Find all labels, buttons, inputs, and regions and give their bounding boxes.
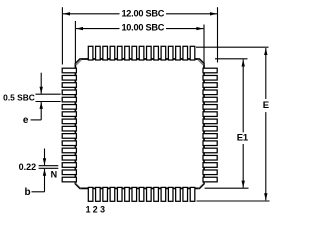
svg-text:E: E (263, 100, 269, 111)
pin-1 corner chamfer hatch top-left (75, 59, 81, 65)
svg-text:2: 2 (93, 204, 98, 214)
E dimension line with arrows (264, 48, 267, 200)
svg-text:N: N (51, 170, 58, 180)
svg-text:1: 1 (86, 204, 91, 214)
top lead row (15 leads) (88, 46, 195, 60)
package body outline (75, 59, 204, 188)
10.00 SBC dimension line with arrows (76, 27, 203, 30)
E dimension extension line bottom (197, 200, 270, 202)
svg-text:b: b (24, 187, 30, 198)
bottom lead row (15 leads), lead 1..3 at left (88, 187, 195, 201)
12.00 SBC dimension extension line right (217, 7, 219, 62)
E1 dimension line with arrows (242, 60, 245, 188)
12.00 SBC dimension line with arrows (63, 12, 217, 15)
0.22 lead width arrow above (43, 149, 46, 166)
right lead column (16 leads) (203, 68, 217, 182)
lead pitch measure line lower (36, 101, 61, 103)
0.5 SBC pitch arrow below with leader to e (31, 102, 43, 120)
svg-text:10.00 SBC: 10.00 SBC (121, 23, 164, 33)
corner chamfer hatch bottom-left (75, 183, 81, 189)
lead width measure line lower (39, 167, 59, 169)
10.00 SBC dimension extension line left (74, 21, 76, 63)
0.22 lead width arrow below with leader to b (32, 169, 47, 192)
svg-text:0.22: 0.22 (19, 162, 37, 172)
lead pitch measure line upper (36, 93, 61, 95)
12.00 SBC dimension extension line left (61, 7, 63, 64)
left lead column (16 leads) (62, 68, 76, 182)
corner chamfer hatch bottom-right (198, 183, 204, 189)
svg-text:12.00 SBC: 12.00 SBC (121, 8, 164, 18)
10.00 SBC dimension extension line right (203, 25, 205, 64)
svg-text:3: 3 (100, 204, 105, 214)
svg-text:0.5 SBC: 0.5 SBC (3, 92, 35, 102)
svg-text:E1: E1 (237, 132, 249, 143)
lead width measure line upper (39, 165, 59, 167)
E dimension extension line top (196, 46, 269, 48)
E1 dimension extension line bottom (205, 187, 249, 189)
corner chamfer hatch top-right (198, 59, 204, 65)
svg-text:e: e (23, 115, 29, 126)
0.5 SBC pitch arrow above (40, 73, 43, 94)
E1 dimension extension line top (215, 58, 248, 60)
